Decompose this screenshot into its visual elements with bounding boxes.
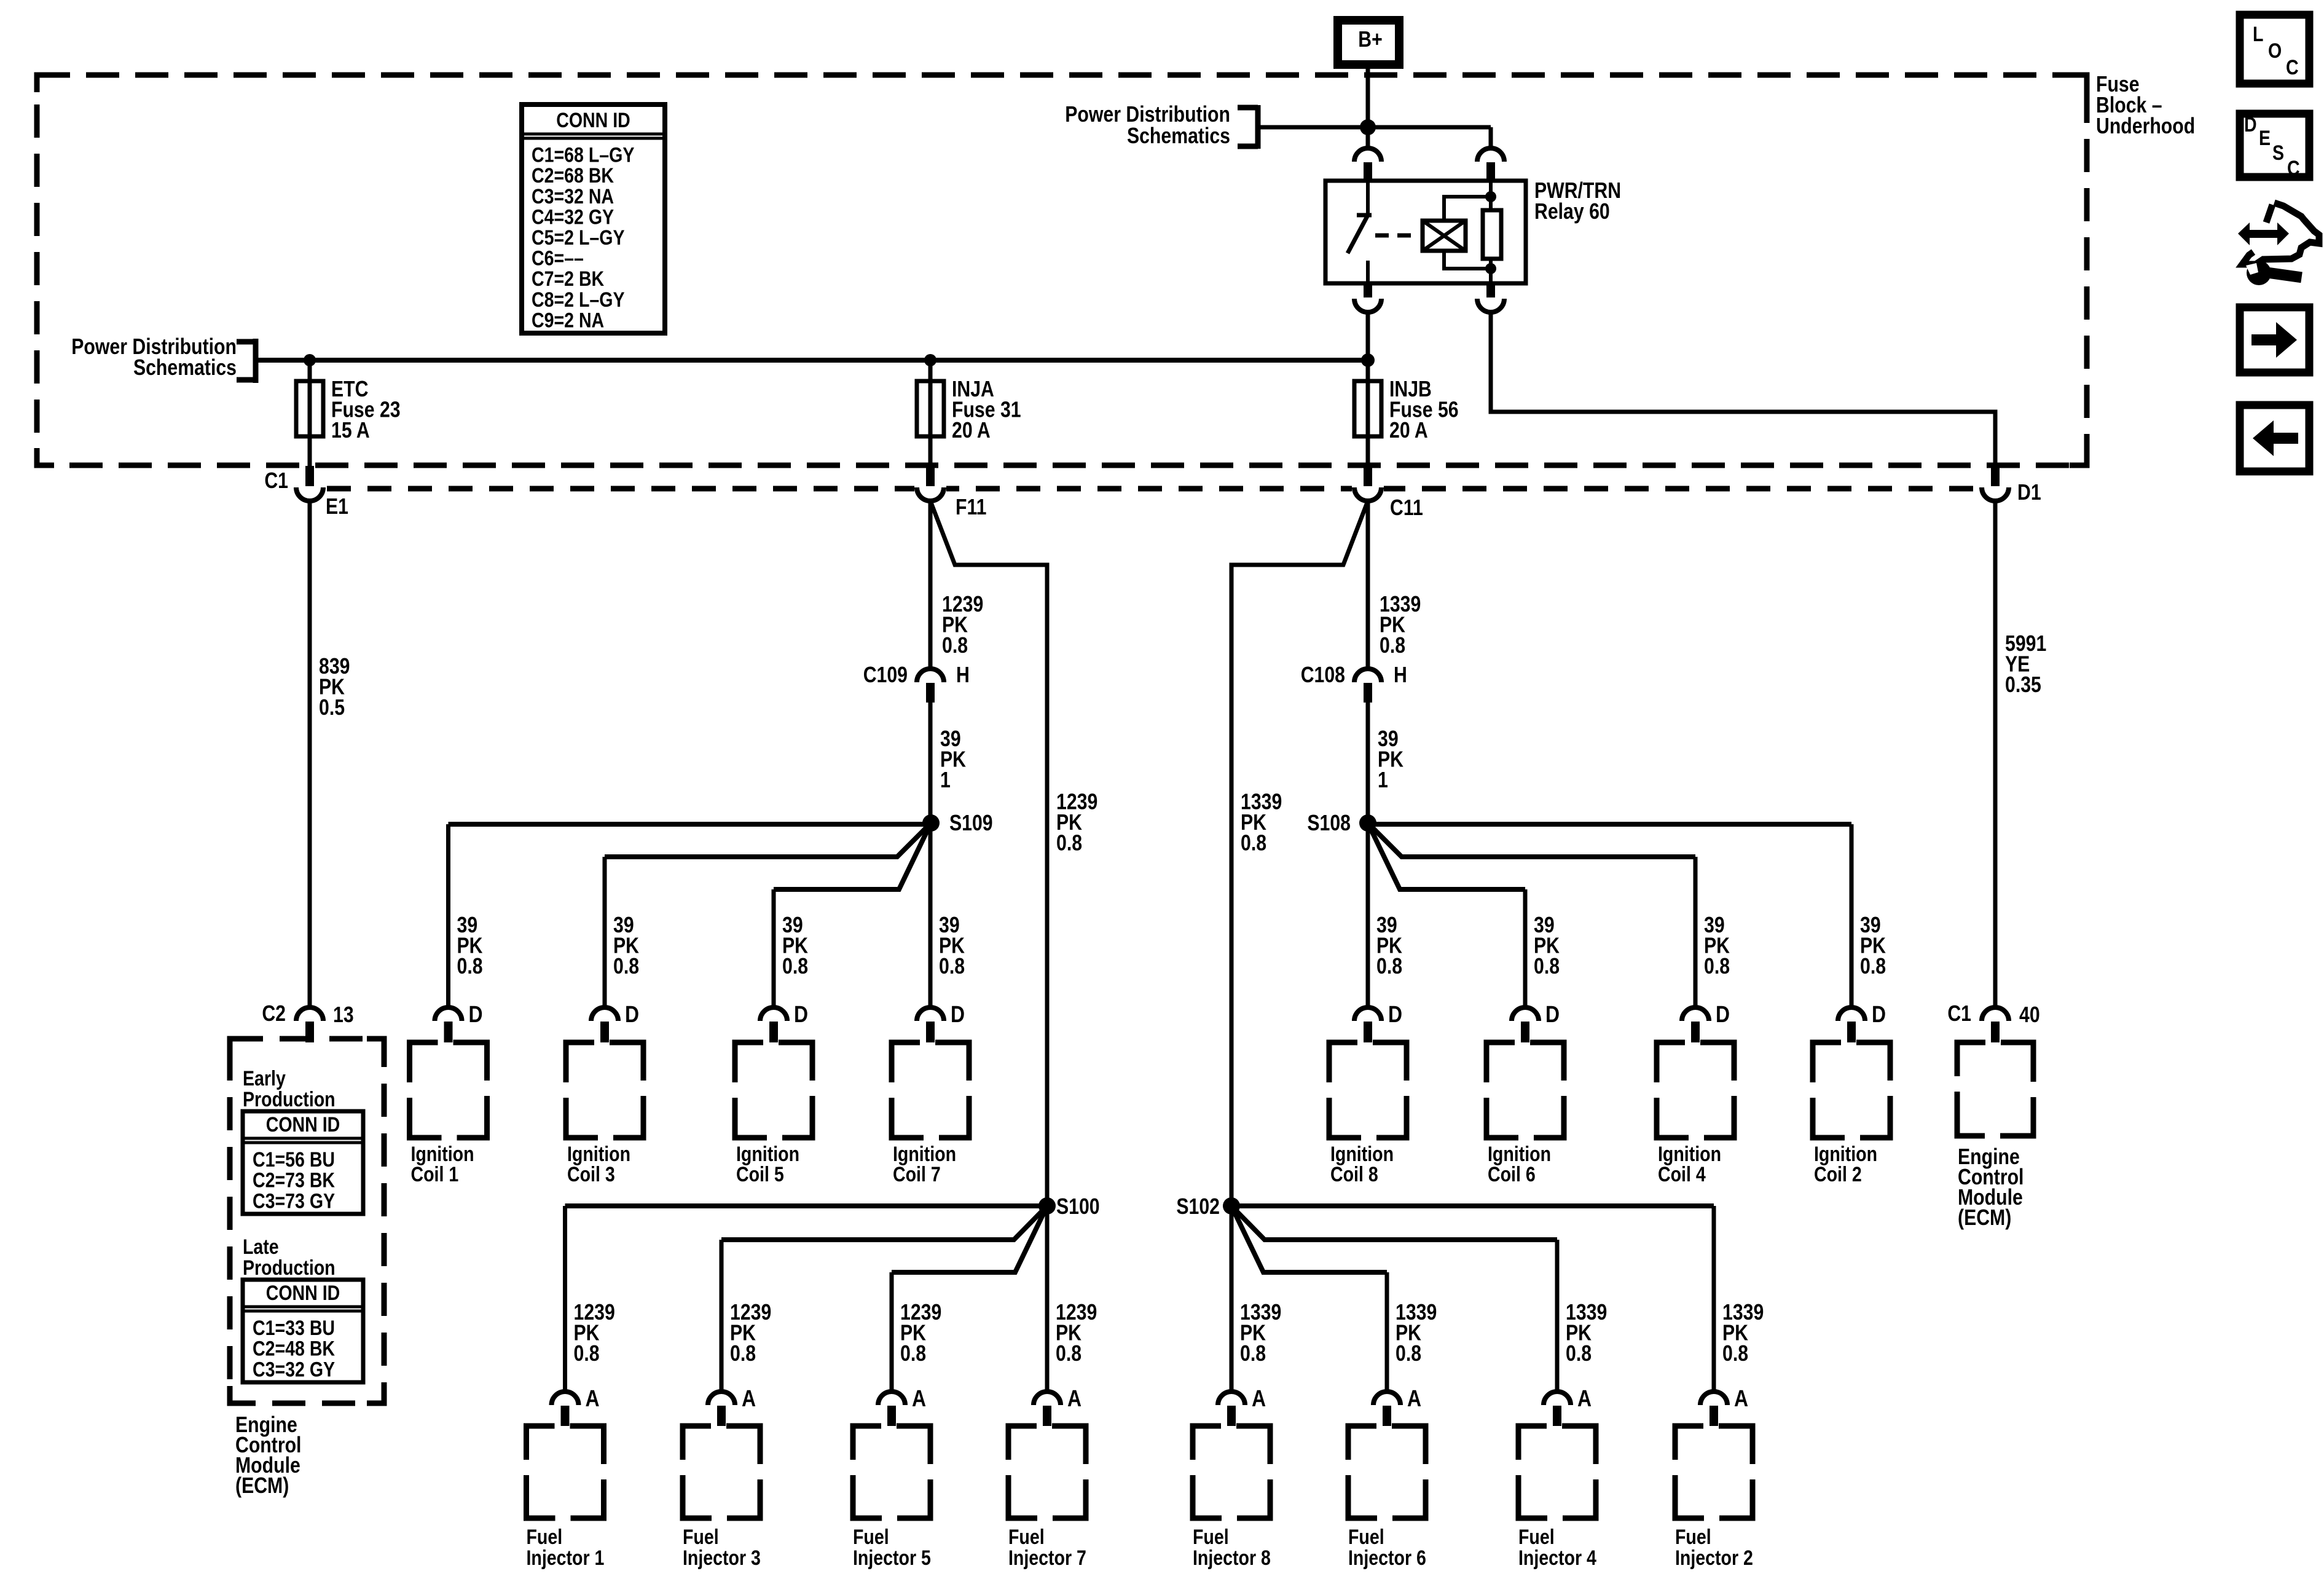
svg-text:D: D: [951, 1001, 965, 1027]
svg-text:0.8: 0.8: [782, 955, 808, 979]
svg-text:Coil 5: Coil 5: [736, 1163, 784, 1186]
svg-text:D: D: [2244, 113, 2257, 136]
svg-text:1: 1: [940, 768, 951, 793]
label wire 1239 PK 0.8 injector 1: [574, 1301, 615, 1366]
wire S108 to ignition coil 4: [1368, 823, 1695, 857]
relay switch-side inline connector (top left pin): [1354, 148, 1381, 181]
svg-text:0.8: 0.8: [1722, 1342, 1748, 1366]
connector terminal D ignition coil 6: [1512, 1007, 1539, 1042]
connector terminal D ignition coil 3: [591, 1007, 618, 1042]
label Fuel Injector 6: [1348, 1526, 1426, 1570]
svg-text:CONN ID: CONN ID: [266, 1113, 340, 1136]
fuse block underhood dashed boundary box: [37, 75, 2087, 465]
svg-text:H: H: [1394, 663, 1407, 688]
svg-text:0.8: 0.8: [1240, 1342, 1266, 1366]
svg-text:Injector 8: Injector 8: [1193, 1546, 1271, 1570]
svg-text:0.8: 0.8: [730, 1342, 756, 1366]
label wire 39 PK 1: [940, 727, 966, 793]
svg-text:A: A: [1252, 1385, 1266, 1411]
svg-text:Underhood: Underhood: [2096, 114, 2195, 139]
ignition coil 3 dashed box: [566, 1042, 643, 1138]
svg-text:C1=33 BU: C1=33 BU: [253, 1316, 335, 1339]
connector C11: [1354, 466, 1381, 501]
svg-text:CONN ID: CONN ID: [266, 1282, 340, 1305]
relay internal wiring: [1444, 181, 1491, 283]
label Fuel Injector 1: [527, 1526, 605, 1570]
relay internal junction top: [1485, 191, 1496, 202]
label Fuel Injector 7: [1008, 1526, 1086, 1570]
svg-text:C3=32 GY: C3=32 GY: [253, 1358, 335, 1381]
svg-text:L: L: [2253, 23, 2263, 46]
fuse ETC Fuse 23 15A: [296, 381, 323, 436]
svg-text:0.8: 0.8: [939, 955, 965, 979]
fuel injector 4 dashed box: [1518, 1426, 1596, 1518]
wire S100 to fuel injector 3: [721, 1206, 1047, 1240]
svg-text:C11: C11: [1390, 496, 1423, 521]
svg-text:0.8: 0.8: [1376, 955, 1402, 979]
label wire 1339 PK 0.8 injector 6: [1396, 1301, 1437, 1366]
ignition coil 8 dashed box: [1329, 1042, 1407, 1138]
callout label Power Distribution Schematics (left): [71, 335, 237, 380]
connector C109 terminal H: [917, 669, 944, 703]
label wire 1339 PK 0.8: [1380, 593, 1421, 658]
relay internal resistor: [1483, 210, 1501, 259]
svg-text:C1: C1: [264, 469, 288, 494]
svg-text:A: A: [742, 1385, 756, 1411]
relay internal junction bottom: [1485, 263, 1496, 274]
svg-text:C5=2 L–GY: C5=2 L–GY: [532, 226, 625, 250]
ECM early/late production dashed box: [230, 1039, 384, 1403]
wire power distribution bus: [256, 358, 1368, 363]
wire 39 PK 0.8 coil 8 drop: [1366, 823, 1370, 1007]
svg-text:S: S: [2272, 141, 2284, 165]
fuel injector 8 dashed box: [1193, 1426, 1270, 1518]
svg-text:D: D: [1545, 1001, 1560, 1027]
svg-text:O: O: [2268, 39, 2282, 63]
svg-text:0.8: 0.8: [900, 1342, 926, 1366]
wire S109 to ignition coil 5: [774, 823, 931, 889]
label wire 1339 PK 0.8 injector 2: [1722, 1301, 1764, 1366]
svg-text:Production: Production: [243, 1256, 336, 1280]
svg-text:Fuel: Fuel: [1008, 1526, 1045, 1549]
label Fuel Injector 8: [1193, 1526, 1271, 1570]
svg-text:C2=68 BK: C2=68 BK: [532, 164, 614, 187]
connector terminal A fuel injector 7: [1034, 1392, 1061, 1426]
relay actuator dashed link: [1375, 234, 1418, 238]
wire B+ to PWR/TRN relay 60 pin: [1366, 69, 1370, 149]
relay switch contact: [1348, 181, 1372, 283]
svg-text:C7=2 BK: C7=2 BK: [532, 267, 604, 291]
svg-text:0.8: 0.8: [1396, 1342, 1421, 1366]
icon vehicle with arrows and wrench: [2238, 203, 2319, 285]
wire 1339 PK 0.8 injector 8 drop: [1230, 1206, 1234, 1392]
fuel injector 2 dashed box: [1675, 1426, 1753, 1518]
svg-text:H: H: [956, 663, 970, 688]
svg-text:(ECM): (ECM): [235, 1474, 289, 1498]
connector terminal D ignition coil 2: [1838, 1007, 1865, 1042]
wire 839 PK 0.5: [308, 501, 312, 1007]
wire 39 PK 0.8 coil 6 drop: [1523, 889, 1528, 1007]
fuse INJA Fuse 31 20A: [917, 381, 944, 436]
wire S108 to ignition coil 2: [1368, 822, 1851, 827]
connector terminal A fuel injector 2: [1700, 1392, 1727, 1426]
svg-text:0.8: 0.8: [1056, 1342, 1082, 1366]
svg-text:Coil 8: Coil 8: [1330, 1163, 1378, 1186]
label wire 39 PK 0.8 coil 5: [782, 913, 808, 979]
wire 39 PK 0.8 coil 2 drop: [1850, 824, 1854, 1007]
svg-text:B+: B+: [1358, 28, 1382, 52]
connector terminal A fuel injector 1: [552, 1392, 579, 1426]
label wire 1339 PK 0.8 injector 8: [1240, 1301, 1281, 1366]
svg-text:A: A: [1734, 1385, 1748, 1411]
svg-text:D: D: [794, 1001, 808, 1027]
svg-text:D: D: [1388, 1001, 1402, 1027]
svg-text:Fuel: Fuel: [1675, 1526, 1711, 1549]
svg-text:0.8: 0.8: [1241, 831, 1266, 856]
wire 39 PK 1: [928, 703, 933, 823]
ignition coil 5 dashed box: [735, 1042, 812, 1138]
junction at ETC fuse tap: [304, 354, 316, 366]
svg-text:0.8: 0.8: [613, 955, 639, 979]
fuel injector 7 dashed box: [1008, 1426, 1086, 1518]
label wire 1239 PK 0.8 injector 7: [1056, 1301, 1097, 1366]
junction on B+ wire: [1360, 119, 1376, 135]
label wire 39 PK 1 (right): [1378, 727, 1403, 793]
connector C2 pin 13 (ECM): [296, 1007, 323, 1042]
wire 1239 PK 0.8 injector 1 drop: [563, 1206, 567, 1392]
label Engine Control Module (ECM) right: [1958, 1145, 2024, 1231]
connector terminal A fuel injector 4: [1544, 1392, 1571, 1426]
svg-text:0.8: 0.8: [1704, 955, 1730, 979]
label fuse INJA Fuse 31 20A: [952, 377, 1021, 443]
svg-text:Fuel: Fuel: [683, 1526, 719, 1549]
wire S108 to ignition coil 6: [1368, 823, 1525, 889]
wire 39 PK 0.8 coil 1 drop: [446, 824, 450, 1007]
label Ignition Coil 7: [893, 1143, 956, 1186]
connector C1 pin 40 (ECM): [1982, 1007, 2009, 1042]
label Fuel Injector 5: [853, 1526, 931, 1570]
label Early Production: [243, 1067, 336, 1111]
label Late Production: [243, 1235, 336, 1280]
connector terminal D ignition coil 8: [1354, 1007, 1381, 1042]
svg-text:Injector 4: Injector 4: [1518, 1546, 1596, 1570]
label Fuel Injector 4: [1518, 1526, 1596, 1570]
svg-text:C2=48 BK: C2=48 BK: [253, 1337, 335, 1360]
CONN ID table early production: [243, 1111, 363, 1214]
fuel injector 6 dashed box: [1348, 1426, 1426, 1518]
svg-text:S102: S102: [1176, 1195, 1220, 1219]
svg-text:0.8: 0.8: [1860, 955, 1886, 979]
label Ignition Coil 6: [1488, 1143, 1551, 1186]
connector boundary dashed line (C1/F11/C11/D1 row): [327, 486, 1979, 492]
label wire 39 PK 0.8 coil 4: [1704, 913, 1730, 979]
label wire 39 PK 0.8 coil 6: [1534, 913, 1560, 979]
wire 39 PK 0.8 coil 4 drop: [1694, 857, 1698, 1007]
wire 1239 PK 0.8 F11 to C109: [928, 501, 933, 670]
label wire 39 PK 0.8 coil 1: [457, 913, 483, 979]
icon LOC box: [2240, 15, 2309, 84]
engine control module dashed box: [1957, 1042, 2033, 1136]
svg-text:20 A: 20 A: [952, 419, 991, 443]
junction at INJA fuse tap: [924, 354, 936, 366]
connector terminal D ignition coil 1: [435, 1007, 462, 1042]
label wire 5991 YE 0.35: [2005, 632, 2046, 698]
svg-text:Injector 5: Injector 5: [853, 1546, 931, 1570]
svg-text:(ECM): (ECM): [1958, 1206, 2011, 1231]
svg-text:S108: S108: [1307, 811, 1351, 836]
ignition coil 4 dashed box: [1657, 1042, 1734, 1138]
label wire 1339 PK 0.8 injector 4: [1566, 1301, 1607, 1366]
svg-text:0.35: 0.35: [2005, 673, 2041, 698]
label wire 1239 PK 0.8: [942, 593, 983, 658]
svg-text:D: D: [625, 1001, 639, 1027]
wire 1339 PK 0.8 injector 2 drop: [1712, 1206, 1716, 1392]
wire 39 PK 1 (right): [1366, 703, 1370, 823]
label Ignition Coil 1: [411, 1143, 474, 1186]
connector D1: [1982, 466, 2009, 501]
callout label Power Distribution Schematics (top): [1065, 103, 1230, 149]
svg-text:A: A: [586, 1385, 600, 1411]
icon forward arrow box: [2240, 307, 2309, 372]
svg-text:C1=56 BU: C1=56 BU: [253, 1148, 335, 1171]
svg-text:C6=––: C6=––: [532, 246, 584, 270]
wire 39 PK 0.8 coil 7 drop: [928, 823, 933, 1007]
connector terminal A fuel injector 8: [1218, 1392, 1245, 1426]
wire S102 to fuel injector 6: [1231, 1206, 1387, 1272]
wire 1239 PK 0.8 to S100: [930, 501, 1047, 1206]
splice S109: [922, 814, 940, 832]
svg-text:D1: D1: [2017, 481, 2041, 505]
svg-text:C109: C109: [863, 663, 908, 688]
wire S109 to ignition coil 3: [605, 823, 931, 857]
bracket for left callout: [237, 339, 256, 383]
svg-text:0.8: 0.8: [942, 634, 968, 658]
connector terminal A fuel injector 3: [708, 1392, 735, 1426]
fuel injector 5 dashed box: [853, 1426, 930, 1518]
connector terminal D ignition coil 7: [917, 1007, 944, 1042]
svg-text:Schematics: Schematics: [133, 356, 237, 380]
svg-text:A: A: [1407, 1385, 1421, 1411]
svg-text:0.8: 0.8: [1534, 955, 1560, 979]
svg-text:Schematics: Schematics: [1127, 124, 1230, 149]
wire 39 PK 0.8 coil 3 drop: [603, 857, 607, 1007]
svg-text:Fuel: Fuel: [1518, 1526, 1555, 1549]
fuel injector 3 dashed box: [683, 1426, 760, 1518]
wire top callout to relay coil feed: [1260, 125, 1491, 130]
wire 39 PK 0.8 coil 5 drop: [772, 889, 776, 1007]
svg-text:Fuel: Fuel: [1193, 1526, 1229, 1549]
ignition coil 2 dashed box: [1813, 1042, 1890, 1138]
svg-text:0.5: 0.5: [319, 696, 345, 720]
connector C108 terminal H: [1354, 669, 1381, 703]
svg-text:C9=2 NA: C9=2 NA: [532, 309, 604, 332]
svg-text:F11: F11: [956, 495, 986, 520]
connector terminal A fuel injector 5: [878, 1392, 905, 1426]
CONN ID table for fuse block: [522, 104, 665, 333]
svg-text:Fuel: Fuel: [853, 1526, 889, 1549]
svg-text:S100: S100: [1056, 1195, 1100, 1219]
svg-text:Injector 1: Injector 1: [527, 1546, 605, 1570]
label Fuel Injector 2: [1675, 1526, 1753, 1570]
svg-text:Coil 6: Coil 6: [1488, 1163, 1536, 1186]
svg-text:0.8: 0.8: [457, 955, 483, 979]
label wire 1239 PK 0.8 injector 3: [730, 1301, 771, 1366]
svg-text:C3=73 GY: C3=73 GY: [253, 1189, 335, 1213]
svg-text:S109: S109: [949, 811, 993, 836]
label wire 1339 PK 0.8 (S102 feed): [1241, 790, 1282, 856]
junction at INJB fuse tap: [1361, 353, 1375, 367]
wire S100 to fuel injector 1: [565, 1203, 1048, 1208]
svg-text:0.8: 0.8: [1056, 831, 1082, 856]
svg-text:C4=32 GY: C4=32 GY: [532, 205, 614, 229]
svg-text:Coil 7: Coil 7: [893, 1163, 941, 1186]
svg-text:15 A: 15 A: [331, 419, 370, 443]
connector F11: [917, 466, 944, 501]
svg-text:C1=68 L–GY: C1=68 L–GY: [532, 143, 634, 167]
label fuse ETC Fuse 23 15A: [331, 377, 401, 443]
wire 1339 PK 0.8 C11 to C108: [1366, 501, 1370, 670]
svg-text:D: D: [1872, 1001, 1886, 1027]
label Engine Control Module (ECM) left: [235, 1413, 301, 1498]
relay coil-side inline connector (top right pin): [1477, 148, 1504, 181]
svg-text:20 A: 20 A: [1389, 419, 1428, 443]
label wire 39 PK 0.8 coil 2: [1860, 913, 1886, 979]
connector terminal D ignition coil 4: [1682, 1007, 1709, 1042]
label PWR/TRN Relay 60: [1534, 179, 1621, 224]
svg-text:Late: Late: [243, 1235, 279, 1259]
svg-text:Coil 2: Coil 2: [1814, 1163, 1862, 1186]
svg-text:D: D: [1716, 1001, 1730, 1027]
label Ignition Coil 5: [736, 1143, 799, 1186]
ignition coil 1 dashed box: [410, 1042, 487, 1138]
svg-text:A: A: [912, 1385, 926, 1411]
label wire 1239 PK 0.8 (S100 feed): [1056, 790, 1097, 856]
wire 1239 PK 0.8 injector 7 drop: [1045, 1206, 1050, 1392]
wire S109 to ignition coil 1: [449, 822, 931, 827]
label Ignition Coil 8: [1330, 1143, 1394, 1186]
fuse INJB Fuse 56 20A: [1354, 381, 1381, 436]
icon back arrow box: [2240, 405, 2309, 471]
wire down to relay coil pin: [1489, 127, 1493, 149]
fuel injector 1 dashed box: [527, 1426, 604, 1518]
icon DESC box: [2240, 113, 2309, 180]
svg-text:E1: E1: [326, 495, 348, 519]
svg-text:C8=2 L–GY: C8=2 L–GY: [532, 288, 625, 311]
wire relay output through INJB fuse to C11: [1366, 312, 1370, 466]
label wire 39 PK 0.8 coil 3: [613, 913, 639, 979]
wire 1339 PK 0.8 to S102: [1231, 501, 1368, 1206]
svg-text:C2=73 BK: C2=73 BK: [253, 1168, 335, 1192]
wire 1239 PK 0.8 injector 5 drop: [890, 1272, 894, 1392]
label fuse INJB Fuse 56 20A: [1389, 377, 1459, 443]
splice S100: [1038, 1197, 1056, 1215]
splice S102: [1223, 1197, 1240, 1215]
svg-text:0.8: 0.8: [1566, 1342, 1592, 1366]
svg-text:Fuel: Fuel: [527, 1526, 563, 1549]
connector terminal A fuel injector 6: [1373, 1392, 1400, 1426]
connector C1 (fuse block E1): [296, 466, 323, 501]
svg-text:Injector 3: Injector 3: [683, 1546, 761, 1570]
wire S102 to fuel injector 4: [1231, 1206, 1557, 1240]
svg-text:D: D: [469, 1001, 483, 1027]
bracket for top callout: [1238, 105, 1258, 149]
label wire 39 PK 0.8 coil 8: [1376, 913, 1402, 979]
label Ignition Coil 3: [567, 1143, 630, 1186]
connector terminal D ignition coil 5: [760, 1007, 787, 1042]
svg-text:C1: C1: [1947, 1002, 1971, 1026]
svg-text:Coil 1: Coil 1: [411, 1163, 459, 1186]
wire 1339 PK 0.8 injector 4 drop: [1555, 1240, 1560, 1392]
label wire 839 PK 0.5: [319, 655, 350, 720]
label wire 1239 PK 0.8 injector 5: [900, 1301, 941, 1366]
svg-text:C: C: [2286, 56, 2299, 79]
label Fuel Injector 3: [683, 1526, 761, 1570]
svg-text:C108: C108: [1301, 663, 1345, 688]
svg-text:C2: C2: [262, 1002, 286, 1026]
battery feed B+ box: [1338, 20, 1399, 65]
relay PWR/TRN Relay 60 box: [1325, 181, 1526, 283]
label wire 39 PK 0.8 coil 7: [939, 913, 965, 979]
svg-text:Coil 3: Coil 3: [567, 1163, 615, 1186]
label Ignition Coil 2: [1814, 1143, 1877, 1186]
svg-text:C3=32 NA: C3=32 NA: [532, 184, 614, 208]
svg-text:1: 1: [1378, 768, 1388, 793]
wire 1339 PK 0.8 injector 6 drop: [1385, 1272, 1389, 1392]
svg-text:13: 13: [333, 1003, 354, 1028]
svg-text:0.8: 0.8: [574, 1342, 600, 1366]
svg-text:Injector 7: Injector 7: [1008, 1546, 1086, 1570]
ignition coil 7 dashed box: [892, 1042, 969, 1138]
relay bottom left inline connector: [1354, 283, 1381, 312]
wire relay output to D1: [1491, 312, 1995, 466]
svg-text:C: C: [2287, 157, 2300, 180]
ignition coil 6 dashed box: [1486, 1042, 1564, 1138]
svg-text:Production: Production: [243, 1088, 336, 1111]
splice S108: [1359, 814, 1376, 832]
svg-text:Injector 6: Injector 6: [1348, 1546, 1426, 1570]
svg-text:Early: Early: [243, 1067, 286, 1090]
svg-text:0.8: 0.8: [1380, 634, 1405, 658]
wire S100 to fuel injector 5: [892, 1206, 1047, 1272]
relay coil (crossed box): [1423, 221, 1466, 251]
label Fuse Block - Underhood: [2096, 73, 2195, 139]
svg-text:A: A: [1067, 1385, 1082, 1411]
svg-text:Relay 60: Relay 60: [1534, 200, 1610, 224]
svg-text:Coil 4: Coil 4: [1658, 1163, 1706, 1186]
svg-text:A: A: [1577, 1385, 1592, 1411]
relay bottom right inline connector: [1477, 283, 1504, 312]
CONN ID table late production: [243, 1280, 363, 1382]
wire 1239 PK 0.8 injector 3 drop: [720, 1240, 724, 1392]
svg-text:CONN ID: CONN ID: [556, 109, 630, 132]
wire 5991 YE 0.35: [1993, 501, 1998, 1007]
svg-text:40: 40: [2019, 1003, 2040, 1028]
svg-text:Fuel: Fuel: [1348, 1526, 1384, 1549]
svg-text:E: E: [2259, 127, 2271, 150]
wire S102 to fuel injector 2: [1231, 1203, 1714, 1208]
svg-text:Injector 2: Injector 2: [1675, 1546, 1753, 1570]
label Ignition Coil 4: [1658, 1143, 1721, 1186]
